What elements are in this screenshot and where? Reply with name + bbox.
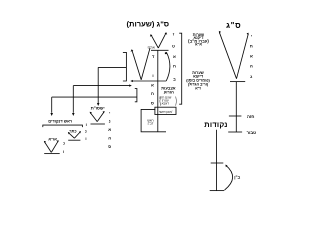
svg-text:מאן דאצי': מאן דאצי'	[159, 110, 173, 114]
svg-text:אח"פ: אח"פ	[148, 46, 155, 50]
svg-text:ב"ן: ב"ן	[234, 175, 240, 180]
wire B horizontal	[73, 85, 129, 87]
right paren of note	[175, 97, 178, 106]
svg-text:ס"ג: ס"ג	[226, 21, 241, 30]
bottom end tick	[210, 190, 225, 192]
right V left arm	[219, 32, 236, 78]
svg-text:א: א	[173, 54, 176, 59]
mid tick on lower vertical	[211, 162, 224, 164]
barrel center vertical	[157, 50, 159, 132]
svg-text:ס: ס	[151, 100, 154, 105]
svg-text:כתר: כתר	[69, 128, 76, 133]
chest tick	[229, 115, 242, 117]
svg-text:ו: ו	[63, 149, 64, 154]
small bracket right of wire C	[135, 89, 137, 102]
svg-text:א: א	[108, 127, 111, 132]
arrowhead AbbaImma right	[57, 140, 59, 142]
arrowhead wire A down	[97, 103, 100, 106]
lower vertical under Nekudot	[216, 130, 218, 191]
arrowhead Keter left	[68, 132, 70, 134]
svg-text:א: א	[151, 82, 154, 87]
big V right arm / barrel left edge	[141, 48, 150, 80]
arrowhead top V left	[150, 34, 153, 37]
box around lower annotation	[141, 109, 166, 131]
arrowhead AbbaImma left	[44, 141, 46, 143]
small framed box	[155, 107, 176, 114]
svg-text:ישסו"ת: ישסו"ת	[91, 106, 105, 111]
Keter V underline	[68, 139, 80, 141]
svg-text:נקודות: נקודות	[204, 120, 227, 129]
arrowhead wire B down	[72, 113, 75, 116]
right V base underline	[230, 81, 245, 83]
wire A vertical drop to Yisasut	[97, 67, 99, 103]
arrowhead Keter right	[79, 131, 81, 133]
arrowhead top V right	[165, 32, 168, 35]
Keter V right arm	[74, 132, 80, 139]
Abba-Imma V left arm	[44, 141, 51, 152]
bracket over Rosh d'Nekudim group	[43, 125, 83, 127]
wire C vertical drop	[51, 97, 53, 113]
arrowhead wire C down	[50, 113, 53, 116]
svg-text:ח: ח	[151, 91, 154, 96]
svg-text:ה: ה	[108, 136, 111, 141]
BaN arc	[225, 165, 233, 190]
svg-text:א: א	[250, 53, 253, 58]
arrowhead BaN arc top	[225, 165, 227, 168]
svg-text:ג: ג	[250, 74, 252, 79]
svg-text:א"א: א"א	[195, 42, 202, 46]
svg-text:ח: ח	[250, 43, 253, 48]
tall bracket before side notes	[179, 33, 182, 104]
svg-text:הזרוע: הזרוע	[164, 89, 174, 94]
svg-text:ס"ג (שערות): ס"ג (שערות)	[126, 20, 169, 29]
wire A horizontal	[98, 66, 126, 68]
left paren of note	[159, 97, 162, 106]
navel tick	[228, 131, 242, 133]
Abba-Imma V underline	[44, 153, 60, 155]
svg-text:או"א: או"א	[48, 137, 57, 142]
wire B vertical drop	[72, 86, 74, 113]
junction blob at arc start	[165, 52, 167, 54]
svg-text:ה: ה	[250, 63, 253, 68]
svg-text:חזה: חזה	[247, 114, 254, 119]
arrowhead barrel bottom left	[130, 80, 133, 82]
barrel right arc	[166, 52, 170, 81]
bracket left of big V	[123, 52, 127, 81]
svg-text:דב"ן: דב"ן	[148, 122, 154, 126]
svg-text:נ: נ	[109, 119, 111, 124]
top V right arm	[158, 33, 166, 48]
right V right arm	[237, 34, 249, 79]
svg-text:ח: ח	[173, 64, 176, 69]
Yisasut V left arm	[90, 112, 97, 121]
big V left arm	[132, 50, 141, 79]
arrowhead big V left arm	[131, 49, 134, 52]
svg-text:ס: ס	[108, 144, 111, 149]
svg-text:ראש דנקודים: ראש דנקודים	[48, 118, 73, 123]
arrowhead right V right arm	[247, 33, 249, 36]
Yisasut V right arm	[97, 112, 104, 122]
arrowhead Yisasut right	[103, 111, 105, 113]
Yisasut V underline	[91, 123, 105, 125]
svg-text:ב: ב	[173, 77, 176, 82]
svg-text:דאבא: דאבא	[162, 102, 170, 106]
Keter V left arm	[68, 132, 74, 138]
svg-text:ו: ו	[152, 73, 153, 78]
barrel bottom line	[133, 80, 167, 82]
top V left arm	[151, 35, 158, 48]
svg-text:י: י	[251, 33, 252, 38]
svg-text:ז"א: ז"א	[195, 87, 201, 91]
svg-text:טבור: טבור	[247, 130, 257, 135]
barrel top line	[151, 49, 169, 51]
wire C horizontal	[52, 96, 137, 98]
svg-text:ו: ו	[85, 136, 86, 141]
svg-text:י: י	[109, 110, 110, 115]
Abba-Imma V right arm	[51, 141, 58, 153]
arrowhead right V left arm	[219, 31, 221, 34]
torso vertical upper	[235, 82, 237, 132]
svg-text:ט: ט	[172, 43, 175, 48]
svg-text:ו: ו	[86, 122, 87, 127]
arrowhead Yisasut left	[90, 112, 92, 114]
arrowhead wire B right	[129, 84, 132, 86]
